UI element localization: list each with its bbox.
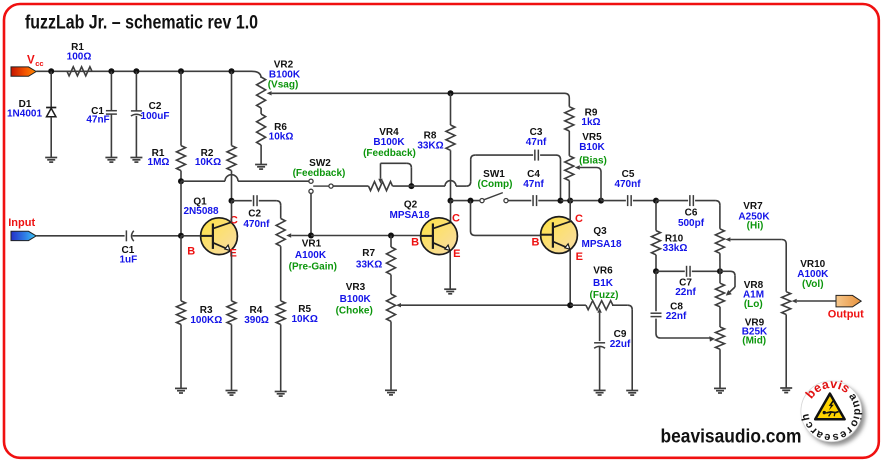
ground VR9	[714, 388, 726, 393]
svg-text:1MΩ: 1MΩ	[148, 157, 170, 168]
svg-text:470nf: 470nf	[614, 179, 641, 190]
svg-text:(Bias): (Bias)	[579, 155, 607, 166]
node VR4-right	[408, 183, 414, 189]
svg-text:E: E	[576, 251, 583, 263]
potentiometer VR10 A100K	[782, 259, 829, 388]
pin Q3 C	[575, 213, 583, 225]
svg-text:470nf: 470nf	[243, 219, 270, 230]
svg-text:100uF: 100uF	[141, 111, 170, 122]
potentiometer VR3 B100K	[336, 282, 396, 390]
wire to C6	[656, 200, 688, 202]
wire C4-out	[538, 200, 560, 202]
svg-text:B100K: B100K	[340, 294, 372, 305]
resistor R1 1M	[148, 71, 186, 181]
svg-text:10kΩ: 10kΩ	[269, 132, 294, 143]
capacitor C1 47nF	[86, 71, 117, 157]
node Q1 base	[178, 233, 184, 239]
diode D1	[7, 71, 56, 157]
resistor R3 100K	[177, 236, 223, 389]
transistor Q1 2N5088	[183, 197, 237, 255]
svg-text:beavisaudio.com: beavisaudio.com	[661, 427, 802, 448]
resistor R6 10k	[257, 114, 294, 165]
svg-text:VR7: VR7	[743, 201, 763, 212]
svg-text:MPSA18: MPSA18	[581, 239, 621, 250]
node rail-C1	[108, 68, 114, 74]
svg-text:VR1: VR1	[302, 239, 322, 250]
svg-text:(Mid): (Mid)	[742, 335, 766, 346]
node R7 tap	[388, 233, 394, 239]
svg-text:10KΩ: 10KΩ	[195, 157, 221, 168]
node Q3 collector node	[567, 198, 573, 204]
ground C9	[594, 390, 606, 395]
potentiometer VR7 A250K	[715, 201, 770, 271]
svg-text:1N4001: 1N4001	[7, 108, 42, 119]
wire SW1 segment	[451, 200, 481, 202]
ground VR6	[626, 391, 638, 396]
node VR1-SW2	[308, 233, 314, 239]
capacitor C9 22uf	[594, 329, 631, 390]
svg-text:B: B	[532, 236, 540, 248]
node VR7-VR8	[717, 268, 723, 274]
wire C7 line	[656, 270, 685, 272]
ground VR3	[385, 390, 397, 395]
svg-text:Q2: Q2	[404, 200, 418, 211]
svg-text:100Ω: 100Ω	[67, 52, 92, 63]
capacitor C3 47nf	[526, 127, 547, 160]
switch SW2	[293, 158, 346, 193]
Input connector	[8, 217, 36, 241]
svg-text:1kΩ: 1kΩ	[581, 117, 600, 128]
wire Q1 base lead	[181, 235, 201, 237]
svg-text:(Feedback): (Feedback)	[363, 148, 416, 159]
wire C4node-Q3C	[561, 200, 571, 202]
node VR5-wiper-node	[598, 198, 604, 204]
svg-text:(Feedback): (Feedback)	[293, 168, 346, 179]
wiper VR1	[286, 233, 311, 237]
pin Q1 C	[230, 214, 238, 226]
svg-text:C: C	[452, 213, 460, 225]
resistor R1 100	[67, 42, 92, 76]
potentiometer VR8 A1M	[716, 271, 765, 327]
capacitor C2 470nf	[243, 195, 270, 230]
wiper VR5	[575, 165, 601, 200]
svg-text:cc: cc	[35, 59, 43, 68]
wire C2-to-VR1	[259, 201, 281, 219]
wire Q2 collector	[450, 201, 452, 223]
svg-text:10KΩ: 10KΩ	[292, 314, 318, 325]
node C5-R10	[653, 198, 659, 204]
wire Q3 emitter	[569, 250, 571, 305]
potentiometer VR4 B100K	[363, 127, 416, 191]
svg-text:V: V	[27, 55, 35, 67]
wire SW1-to-C4	[508, 200, 531, 202]
node Vsag-R8	[448, 90, 454, 96]
wiper VR9 arrow	[709, 336, 715, 341]
svg-text:390Ω: 390Ω	[244, 315, 269, 326]
ground VR10	[780, 388, 792, 393]
transistor Q2 MPSA18	[389, 200, 457, 255]
svg-text:E: E	[453, 248, 460, 260]
wire feedback-hop	[411, 155, 533, 186]
potentiometer VR1 A100K	[276, 219, 337, 301]
wire VR6 right	[612, 305, 632, 390]
wire base bus	[311, 235, 421, 237]
svg-text:(Choke): (Choke)	[336, 306, 373, 317]
capacitor C2 100uF	[131, 71, 170, 157]
wire input	[36, 235, 124, 237]
capacitor C8 22nf	[651, 271, 711, 338]
svg-text:22nf: 22nf	[666, 311, 687, 322]
logo beavis audio research	[799, 377, 865, 445]
capacitor C6 500pf	[678, 195, 705, 229]
svg-text:VR6: VR6	[593, 266, 613, 277]
wire to C5	[601, 200, 626, 202]
node R10-C7	[653, 268, 659, 274]
svg-text:VR3: VR3	[346, 282, 366, 293]
wire Q1 collector	[231, 201, 233, 223]
capacitor C5 470nf	[614, 169, 641, 206]
node A feedback-left	[178, 178, 184, 184]
wiper VR6	[597, 308, 601, 341]
capacitor C7 22nf	[675, 266, 696, 298]
resistor R10 33k	[652, 201, 688, 272]
ground R4	[226, 391, 238, 396]
wire SW2-to-baseline	[310, 193, 312, 235]
wiper VR10	[792, 299, 836, 303]
node C3C4	[558, 198, 564, 204]
node Q3 emitter node	[567, 302, 573, 308]
svg-text:(Vol): (Vol)	[802, 279, 823, 290]
ground D1	[45, 158, 57, 163]
pin Q1 B	[187, 246, 195, 258]
node rail-R1M	[178, 68, 184, 74]
svg-text:(Vsag): (Vsag)	[268, 80, 299, 91]
ground C2	[130, 158, 142, 163]
potentiometer VR2 B100K	[257, 60, 301, 114]
wire to VR5 wiper node	[570, 200, 601, 202]
svg-text:33KΩ: 33KΩ	[417, 141, 443, 152]
potentiometer VR6 B1K	[570, 266, 618, 310]
node Q2C-SW1	[448, 198, 454, 204]
wire Q3 collector	[569, 201, 571, 221]
wire C1-to-base	[132, 235, 181, 237]
wire Q1C-to-C2	[232, 200, 252, 202]
ground R6	[255, 165, 267, 170]
Vcc connector	[11, 55, 44, 77]
ground Q2 emitter	[444, 289, 456, 294]
wire Vsag rail	[451, 93, 570, 98]
title	[25, 12, 258, 34]
svg-text:47nf: 47nf	[523, 179, 544, 190]
pin Q2 B	[411, 236, 419, 248]
svg-text:MPSA18: MPSA18	[389, 210, 429, 221]
wire C6-to-VR7	[695, 201, 720, 229]
pin Q1 E	[230, 247, 237, 259]
svg-text:47nF: 47nF	[86, 114, 109, 125]
resistor R4 390	[227, 301, 269, 391]
potentiometer VR5 B10K	[565, 132, 607, 201]
wiper VR4	[378, 163, 411, 186]
ground C1	[105, 158, 117, 163]
node Q1 collector	[229, 198, 235, 204]
wire VR4-out	[393, 185, 412, 187]
beavisaudio.com text	[661, 427, 802, 448]
transistor Q3 MPSA18	[541, 217, 622, 254]
svg-text:47nf: 47nf	[526, 137, 547, 148]
ground R3	[175, 388, 187, 393]
svg-text:500pf: 500pf	[678, 218, 705, 229]
svg-text:22uf: 22uf	[610, 339, 631, 350]
wiper VR7	[725, 237, 786, 291]
resistor R9 1k	[565, 98, 601, 156]
wire C7-out	[692, 270, 720, 272]
svg-text:fuzzLab Jr. – schematic rev 1.: fuzzLab Jr. – schematic rev 1.0	[25, 12, 258, 34]
wire Q3 base	[471, 201, 541, 236]
svg-text:C2: C2	[248, 209, 261, 220]
node rail-R2	[229, 68, 235, 74]
pin Q3 B	[532, 236, 540, 248]
resistor R7 33K	[356, 236, 396, 295]
svg-text:(Comp): (Comp)	[478, 179, 513, 190]
svg-text:B: B	[411, 236, 419, 248]
svg-text:(Lo): (Lo)	[744, 299, 763, 310]
svg-text:Q3: Q3	[593, 226, 607, 237]
node rail-D1	[48, 68, 54, 74]
svg-text:100KΩ: 100KΩ	[190, 315, 222, 326]
svg-text:Input: Input	[8, 217, 35, 229]
switch SW1	[478, 169, 513, 203]
resistor R2 10K	[195, 71, 236, 200]
svg-text:(Fuzz): (Fuzz)	[590, 290, 619, 301]
wiper VR2	[267, 91, 451, 95]
capacitor C1 1uF	[120, 230, 138, 265]
svg-text:(Pre-Gain): (Pre-Gain)	[289, 262, 337, 273]
svg-text:C6: C6	[685, 208, 698, 219]
wire Q1 emitter	[231, 252, 233, 301]
svg-text:B1K: B1K	[593, 278, 614, 289]
svg-text:A100K: A100K	[295, 250, 327, 261]
svg-text:E: E	[230, 247, 237, 259]
svg-text:22nf: 22nf	[675, 287, 696, 298]
svg-text:C: C	[575, 213, 583, 225]
wire R1M-to-base	[180, 181, 182, 236]
wire C5-out	[633, 200, 656, 202]
svg-text:Output: Output	[828, 309, 864, 321]
svg-text:(Hi): (Hi)	[747, 221, 764, 232]
wire C3-down	[540, 155, 560, 201]
svg-text:R7: R7	[362, 248, 375, 259]
wiper VR8 loop	[720, 271, 735, 295]
svg-text:33kΩ: 33kΩ	[663, 243, 688, 254]
potentiometer VR9 B25K	[716, 317, 769, 388]
svg-text:B10K: B10K	[579, 142, 605, 153]
wire Vcc rail	[36, 71, 261, 78]
node rail-C2	[133, 68, 139, 74]
wire SW2-to-VR4	[333, 185, 368, 187]
pin Q2 C	[452, 213, 460, 225]
node Q3base-tap	[468, 198, 474, 204]
resistor R8 33K	[417, 93, 455, 200]
wire Q2 emitter	[449, 252, 451, 290]
svg-text:B: B	[187, 246, 195, 258]
ground R5	[275, 392, 287, 397]
wire feedback-left	[181, 175, 309, 181]
svg-text:1uF: 1uF	[120, 255, 138, 266]
pin Q2 E	[453, 248, 460, 260]
svg-text:33KΩ: 33KΩ	[356, 260, 382, 271]
svg-text:B100K: B100K	[373, 137, 405, 148]
svg-text:2N5088: 2N5088	[183, 206, 218, 217]
capacitor C4 47nf	[523, 169, 544, 206]
pin Q3 E	[576, 251, 583, 263]
resistor R5 10K	[276, 301, 318, 392]
wiper VR3 wire	[396, 303, 570, 307]
Output connector	[828, 295, 864, 320]
